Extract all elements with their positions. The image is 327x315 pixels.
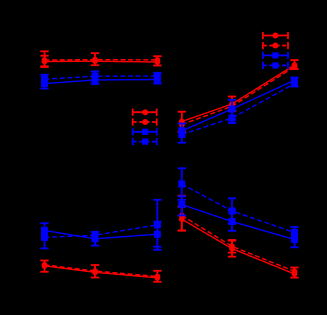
TR blue errorbar x2 solid xyxy=(228,100,236,120)
BR blue errorbar x2 lower xyxy=(228,210,236,231)
BR red solid series xyxy=(179,216,297,277)
TR legend entry red dashed circle xyxy=(263,42,288,49)
BR blue errorbar x3 xyxy=(290,227,298,247)
BL blue dashed series xyxy=(41,221,161,241)
BR red errorbar x1 solid xyxy=(178,207,186,231)
TR blue solid series xyxy=(178,77,298,135)
BL blue errorbar x1 xyxy=(40,223,48,248)
TR legend entry blue dashed square xyxy=(263,62,288,69)
BL blue errorbar x3 short xyxy=(153,222,161,247)
TL blue errorbar x1 xyxy=(40,75,48,89)
TL legend entry blue dashed square xyxy=(133,138,157,145)
BR blue errorbar x2 upper xyxy=(228,198,236,223)
BL red errorbar x3 xyxy=(153,271,161,282)
TR red errorbar x2 xyxy=(228,97,236,112)
TR legend entry blue solid square xyxy=(263,52,288,59)
TR red dashed series xyxy=(179,64,297,128)
TR blue dashed series xyxy=(178,80,298,138)
TR red errorbar x3 xyxy=(290,60,298,69)
BR blue dashed series xyxy=(178,181,298,237)
TR red errorbar x1 xyxy=(178,112,186,132)
BR red errorbar x3 xyxy=(290,268,298,278)
BL blue errorbar x2 xyxy=(91,232,99,246)
BR blue errorbar x1 upper xyxy=(178,168,186,200)
TL blue dashed series xyxy=(41,73,161,83)
BR blue errorbar x1 lower xyxy=(178,196,186,215)
TL blue solid series xyxy=(41,76,161,87)
TL red errorbar x1 solid xyxy=(40,56,48,67)
BR red errorbar x2 dashed xyxy=(228,240,236,253)
TR blue errorbar x1 xyxy=(178,124,186,143)
BL red errorbar x1 xyxy=(40,261,48,272)
TR blue errorbar x3 xyxy=(290,78,298,87)
TL red errorbar x3 xyxy=(153,56,161,65)
TL red solid series xyxy=(42,58,161,65)
TL blue errorbar x3 xyxy=(153,73,161,84)
BL red dashed series xyxy=(42,262,161,280)
TL blue errorbar x2 xyxy=(91,71,99,84)
TL red errorbar x2 xyxy=(91,53,99,65)
BL blue solid series xyxy=(41,227,161,242)
BR red errorbar x2 solid xyxy=(228,241,236,257)
TL legend entry red dashed circle xyxy=(133,118,157,125)
BL red solid series xyxy=(42,263,161,281)
BR blue solid series xyxy=(178,201,298,243)
TL legend entry blue solid square xyxy=(133,128,157,135)
TR red solid series xyxy=(179,62,297,124)
BR red dashed series xyxy=(179,213,297,275)
TL red dashed series xyxy=(42,57,161,63)
TL red errorbar x1 dashed xyxy=(40,51,48,66)
BL blue errorbar x3 long xyxy=(153,200,161,250)
BR red errorbar x1 dashed xyxy=(178,196,186,231)
TL legend entry red solid circle xyxy=(133,109,157,116)
TR blue errorbar x2 dashed xyxy=(228,110,236,123)
TR legend entry red solid circle xyxy=(263,32,288,39)
BL red errorbar x2 xyxy=(91,265,99,278)
